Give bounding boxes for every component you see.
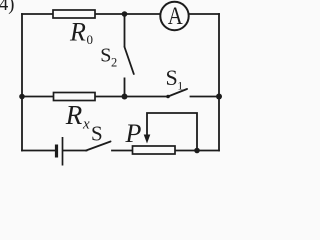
switch S2 lower lead xyxy=(124,78,126,97)
switch S blade xyxy=(86,142,111,151)
wire left xyxy=(21,14,23,151)
switch S1 blade xyxy=(168,89,187,97)
rheostat P slider wire xyxy=(147,113,197,151)
svg-text:0: 0 xyxy=(87,32,94,47)
node middle left junction xyxy=(19,94,25,100)
rheostat P slider arrowhead xyxy=(144,135,151,144)
rheostat P box xyxy=(133,146,176,154)
svg-text:S: S xyxy=(91,122,103,146)
svg-text:S: S xyxy=(100,45,111,67)
resistor R0 xyxy=(53,10,95,18)
wire battery to switch S xyxy=(64,150,87,152)
svg-text:A: A xyxy=(168,3,183,30)
battery cell negative plate xyxy=(55,145,58,158)
wire right xyxy=(218,14,220,151)
wire bottom left xyxy=(22,150,56,152)
resistor Rx xyxy=(54,93,96,101)
svg-text:1: 1 xyxy=(177,79,183,93)
wire middle left xyxy=(22,96,168,98)
svg-text:4): 4) xyxy=(0,0,14,15)
battery cell positive plate xyxy=(62,137,64,166)
svg-text:2: 2 xyxy=(111,56,117,70)
node S1 contact xyxy=(166,95,170,99)
svg-text:R: R xyxy=(65,100,83,130)
svg-text:x: x xyxy=(82,117,90,133)
switch S2 blade xyxy=(125,47,134,74)
switch S2 upper lead xyxy=(124,14,126,47)
node rheostat slider junction xyxy=(194,148,200,154)
node middle right junction xyxy=(216,94,222,100)
wire middle right xyxy=(191,96,220,98)
wire switch S to rheostat xyxy=(112,150,219,152)
svg-text:S: S xyxy=(166,65,178,90)
svg-text:P: P xyxy=(125,119,142,148)
node top S2 junction xyxy=(122,11,128,17)
node S2 bottom junction xyxy=(122,94,128,100)
wire top xyxy=(22,13,219,15)
svg-text:R: R xyxy=(69,18,86,47)
ammeter A circle xyxy=(160,2,188,30)
